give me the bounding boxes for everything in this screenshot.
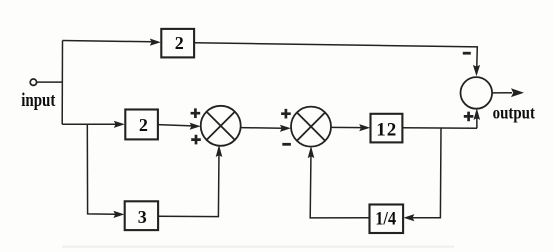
minus summer2: [282, 143, 291, 146]
wire block2mid to summer1: [158, 125, 192, 126]
svg-text:2: 2: [139, 115, 148, 135]
gain block 2 (top feedforward) rect: [161, 29, 194, 58]
arrowhead down into summer: [473, 65, 480, 76]
summer 1 circle: [201, 106, 241, 146]
summer 2 cross: [297, 113, 325, 141]
arrowhead into block 12: [359, 124, 370, 131]
svg-text:2: 2: [175, 33, 184, 53]
arrowhead into block 3: [113, 211, 124, 218]
output summer circle: [461, 77, 493, 109]
wire feedback drop right: [412, 128, 441, 218]
arrowhead up into summer1: [216, 145, 223, 157]
arrowhead into summer2: [280, 125, 291, 132]
svg-text:12: 12: [376, 120, 397, 141]
arrowhead into block 2 mid: [114, 121, 125, 128]
wire up into output summer bottom: [476, 112, 478, 129]
wire middle branch to block 2 mid: [62, 123, 116, 125]
plus summer2: [281, 109, 291, 119]
block 1/4 rect: [370, 205, 404, 234]
svg-text:3: 3: [138, 207, 147, 227]
arrowhead into block 2 top: [150, 39, 161, 46]
summer 2 circle: [291, 107, 331, 147]
output wire: [492, 92, 512, 94]
arrowhead output: [511, 88, 524, 97]
faint scan smudge bottom: [62, 246, 454, 248]
svg-text:output: output: [493, 102, 536, 123]
wire block12 to right: [402, 127, 477, 129]
arrowhead up into output summer: [474, 108, 481, 120]
arrowhead up into summer2: [308, 146, 315, 158]
wire block3 to summer1 bottom: [158, 150, 219, 216]
wire vertical left main: [61, 41, 63, 125]
arrowhead left into block 1/4: [403, 214, 414, 221]
minus sign top right: [463, 52, 471, 55]
svg-text:input: input: [21, 89, 55, 110]
block 3 rect: [125, 201, 158, 230]
wire summer2 to block 12: [331, 126, 362, 128]
wire drop to block 3: [87, 124, 115, 214]
arrowhead into summer1: [190, 123, 201, 130]
svg-text:1/4: 1/4: [375, 207, 396, 228]
plus sign output summer: [464, 112, 474, 122]
block 12 rect: [371, 114, 403, 143]
plus summer1 upper: [191, 108, 201, 118]
wire block2top to right corner: [194, 43, 477, 74]
input terminal circle: [30, 79, 36, 85]
plus summer1 lower: [191, 135, 201, 145]
summer 1 cross: [207, 112, 235, 140]
wire block 1/4 to summer2 bottom: [310, 151, 369, 218]
block 2 mid rect: [125, 110, 158, 140]
wire input to vertical: [37, 81, 63, 83]
wire top branch horizontal: [63, 41, 153, 42]
wire summer1 to summer2: [241, 127, 282, 130]
